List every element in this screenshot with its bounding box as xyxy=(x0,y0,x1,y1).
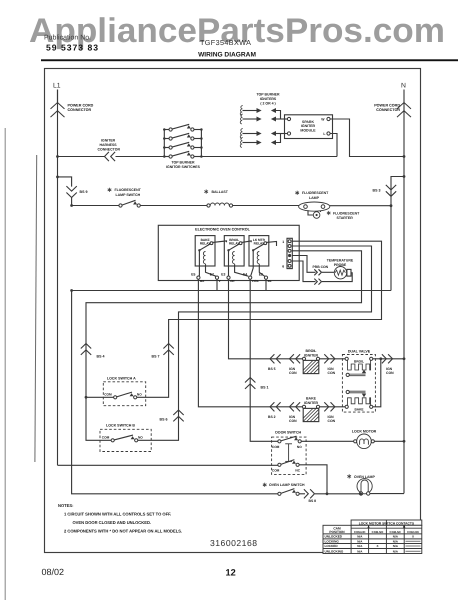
wire valve to IGN CON out xyxy=(381,358,404,360)
svg-text:N/A: N/A xyxy=(393,549,399,553)
svg-text:DOOR SWITCH: DOOR SWITCH xyxy=(275,430,301,434)
svg-text:BS 4: BS 4 xyxy=(97,355,105,359)
lock switch A box xyxy=(103,382,145,406)
wire L1 to BS9 xyxy=(58,177,72,187)
broil igniter xyxy=(302,357,305,360)
junction N broil-bake return xyxy=(403,357,406,360)
svg-text:E3: E3 xyxy=(221,273,225,277)
svg-text:NO: NO xyxy=(138,436,143,440)
broil valve element xyxy=(345,357,348,360)
probe connector lower xyxy=(319,279,322,285)
svg-text:( 2 OR 4 ): ( 2 OR 4 ) xyxy=(260,102,275,106)
wire lamp to BS3 xyxy=(330,205,391,207)
label fluorescent lamp switch xyxy=(109,188,111,192)
table dash locked B xyxy=(406,545,421,547)
bake valve actuator xyxy=(346,390,349,393)
wire switch to ballast xyxy=(140,205,207,207)
svg-text:COM: COM xyxy=(272,445,280,449)
svg-text:59 5373 83: 59 5373 83 xyxy=(46,43,99,53)
svg-text:PRB CON: PRB CON xyxy=(313,265,329,269)
svg-text:CON: CON xyxy=(289,419,297,423)
svg-text:SPARK: SPARK xyxy=(302,120,314,124)
wire broil igniter to valve xyxy=(320,358,346,360)
svg-text:BS 2: BS 2 xyxy=(268,415,276,419)
svg-text:DUAL VALVE: DUAL VALVE xyxy=(348,349,371,353)
junction L1 BS9 branch xyxy=(56,176,59,179)
svg-text:NC: NC xyxy=(295,469,300,473)
svg-text:LOCK SWITCH B: LOCK SWITCH B xyxy=(106,424,135,428)
title underline xyxy=(41,59,458,61)
wire L1 main line right xyxy=(201,156,337,158)
wire E4 to door switch xyxy=(250,279,278,441)
lock motor relay xyxy=(249,236,269,266)
wire probe connector to probe xyxy=(322,271,334,273)
svg-text:HARNESS: HARNESS xyxy=(100,143,118,147)
svg-text:6: 6 xyxy=(282,265,284,269)
connector IGN CON broil in xyxy=(290,354,294,363)
connector BS 1 xyxy=(245,378,255,383)
svg-text:COM-NC: COM-NC xyxy=(390,530,402,534)
svg-text:Publication No.: Publication No. xyxy=(44,34,91,42)
label fluorescent lamp xyxy=(296,191,298,195)
probe connector upper xyxy=(319,269,322,275)
top burner igniter switches xyxy=(163,130,165,157)
electronic oven control box xyxy=(158,225,299,280)
wire N to BS3 xyxy=(391,177,404,206)
svg-text:BS 1: BS 1 xyxy=(261,386,269,390)
table dash unlocking B xyxy=(406,550,421,552)
svg-text:CONNECTOR: CONNECTOR xyxy=(98,148,121,152)
svg-text:E7: E7 xyxy=(210,273,214,277)
broil relay xyxy=(224,236,244,266)
wire broil relay to E3 xyxy=(228,250,230,276)
wire BS3 rail down xyxy=(390,206,392,291)
svg-text:POWER CORD: POWER CORD xyxy=(68,104,94,108)
power cord connector N xyxy=(397,103,411,109)
svg-text:LAMP SWITCH: LAMP SWITCH xyxy=(116,193,141,197)
wire fluorescent feed xyxy=(72,205,119,207)
connector BS 9 xyxy=(66,193,76,198)
svg-text:N/A: N/A xyxy=(393,544,399,548)
svg-text:1 CIRCUIT SHOWN WITH ALL CO: 1 CIRCUIT SHOWN WITH ALL CONTROLS SET TO… xyxy=(64,512,171,517)
bake relay xyxy=(195,236,215,266)
svg-text:NO: NO xyxy=(297,445,302,449)
svg-text:L1: L1 xyxy=(53,83,61,90)
page edge scan artifact xyxy=(4,128,6,600)
dual valve box xyxy=(342,355,375,413)
junction door NC lamp xyxy=(326,492,329,495)
svg-text:316002168: 316002168 xyxy=(210,538,258,548)
wire L1 rail xyxy=(57,90,59,466)
svg-text:X: X xyxy=(412,535,414,539)
wire L1 to door switch lower COM xyxy=(58,464,278,466)
wire bake relay to E5 xyxy=(198,250,200,276)
control terminal strip xyxy=(287,238,292,268)
svg-text:V: V xyxy=(219,279,221,283)
door switch upper xyxy=(278,440,281,443)
svg-text:CON: CON xyxy=(289,371,297,375)
bake igniter xyxy=(302,405,305,408)
wire bake coil to E7 xyxy=(206,264,216,276)
wire strip5 to probe return xyxy=(292,261,315,282)
junction fluorescent feed xyxy=(70,204,73,207)
svg-text:N/A: N/A xyxy=(393,535,399,539)
svg-text:N: N xyxy=(401,83,406,90)
wire bake valve out xyxy=(373,359,381,407)
svg-text:CON: CON xyxy=(328,371,336,375)
junction fluorescent return xyxy=(390,204,393,207)
wire bake-broil relay link xyxy=(213,241,227,243)
svg-text:12: 12 xyxy=(226,568,236,578)
connector IGN CON bake in xyxy=(290,402,294,411)
spark igniter module terminals xyxy=(287,117,290,120)
wire lkmtr relay link xyxy=(266,242,276,247)
wire broil-lkmtr relay link xyxy=(242,241,252,243)
svg-text:NOTES:: NOTES: xyxy=(58,503,73,508)
svg-text:BS 6: BS 6 xyxy=(160,418,168,422)
wire door NO to lock motor xyxy=(301,440,353,442)
temperature probe xyxy=(334,267,346,279)
top burner igniters (4 spark gaps) xyxy=(240,106,243,116)
diagram border frame xyxy=(45,69,421,553)
wire lkmtr coil to E2 xyxy=(259,264,264,276)
svg-text:E2: E2 xyxy=(259,273,263,277)
svg-text:LOCK MOTOR: LOCK MOTOR xyxy=(352,429,377,433)
connector BS 8 xyxy=(310,489,314,498)
wire E2 drop xyxy=(265,279,267,290)
lock switch B box xyxy=(100,429,151,451)
svg-text:CON: CON xyxy=(386,371,394,375)
wire broil valve out xyxy=(373,358,381,360)
junction return line left xyxy=(70,289,73,292)
power cord connector L1 xyxy=(51,103,65,109)
svg-text:FLUORESCENT: FLUORESCENT xyxy=(302,191,329,195)
lock switch B xyxy=(111,439,114,442)
lock motor switch contacts table grid xyxy=(351,520,422,525)
svg-text:WIRING DIAGRAM: WIRING DIAGRAM xyxy=(198,52,256,59)
svg-text:UNLOCKING: UNLOCKING xyxy=(325,549,344,553)
svg-text:BROIL: BROIL xyxy=(306,349,318,353)
label oven lamp xyxy=(348,474,350,478)
connector BS 7 xyxy=(163,344,173,349)
svg-text:TOP BURNER: TOP BURNER xyxy=(256,93,279,97)
wire E7 drop xyxy=(216,279,218,290)
svg-text:COM: COM xyxy=(104,393,112,397)
svg-text:CON: CON xyxy=(328,419,336,423)
svg-text:08/02: 08/02 xyxy=(42,567,65,577)
door switch lower xyxy=(278,463,281,466)
svg-text:L: L xyxy=(323,132,325,136)
bake valve element xyxy=(345,405,348,408)
svg-text:CONNECTOR: CONNECTOR xyxy=(68,108,92,112)
igniter harness connector xyxy=(105,152,109,161)
junction valve returns xyxy=(379,357,382,360)
svg-text:BS 3: BS 3 xyxy=(373,189,381,193)
table dash locking B xyxy=(406,540,421,542)
label fluorescent starter xyxy=(328,211,330,215)
svg-text:COM-NO: COM-NO xyxy=(372,530,384,534)
svg-text:N/A: N/A xyxy=(393,539,399,543)
svg-text:ELECTRONIC OVEN CONTROL: ELECTRONIC OVEN CONTROL xyxy=(195,228,250,232)
wire return line xyxy=(72,290,391,292)
wire module W to N xyxy=(330,119,404,157)
svg-text:BS 8: BS 8 xyxy=(309,499,317,503)
page fold scan artifact xyxy=(35,155,37,462)
connector BS 5 broil xyxy=(270,354,274,363)
svg-text:NO: NO xyxy=(137,393,142,397)
wire L1 main line left xyxy=(58,156,105,158)
wire L1 main line mid xyxy=(116,156,165,158)
svg-text:IGNITER: IGNITER xyxy=(301,124,316,128)
wire E3 to broil line xyxy=(229,279,303,359)
wire main line to module L xyxy=(330,134,337,157)
svg-text:IGNITER: IGNITER xyxy=(304,353,319,357)
oven lamp switch xyxy=(278,492,281,495)
connector BS 4 xyxy=(81,344,91,349)
svg-text:LAMP: LAMP xyxy=(309,196,320,200)
wire lamp to N xyxy=(370,493,404,495)
lock switch A xyxy=(114,396,117,399)
svg-text:BAKE: BAKE xyxy=(354,408,363,412)
wire probe return loop xyxy=(322,273,352,282)
fluorescent lamp switch xyxy=(119,204,122,207)
svg-text:BROIL: BROIL xyxy=(354,360,364,364)
connector BS 2 bake xyxy=(270,402,274,411)
svg-text:FLUORESCENT: FLUORESCENT xyxy=(115,188,142,192)
label ballast xyxy=(205,190,207,194)
svg-text:N/A: N/A xyxy=(357,539,363,543)
svg-text:COM-NC: COM-NC xyxy=(354,530,366,534)
wire lock motor to N xyxy=(374,440,404,442)
fluorescent lamp xyxy=(299,202,330,211)
svg-text:1: 1 xyxy=(282,240,284,244)
wire E5 to bake line xyxy=(198,279,302,407)
svg-text:UNLOCKED: UNLOCKED xyxy=(325,535,343,539)
wire bake igniter to valve xyxy=(320,406,346,408)
svg-text:N/A: N/A xyxy=(357,549,363,553)
wire lamp switch to BS8 xyxy=(299,493,305,495)
svg-text:TOP BURNER: TOP BURNER xyxy=(171,161,194,165)
door switch link xyxy=(288,444,290,462)
label oven lamp switch xyxy=(264,483,266,487)
svg-text:TEMPERATURE: TEMPERATURE xyxy=(327,259,354,263)
connector IGN CON valve xyxy=(388,354,392,363)
wire door NC to lamp line xyxy=(299,465,327,494)
svg-text:BS 5: BS 5 xyxy=(268,367,276,371)
fluorescent starter xyxy=(308,210,313,215)
connector BS 3 xyxy=(386,191,396,196)
junction lock switch A feed xyxy=(85,396,88,399)
svg-text:POSITION: POSITION xyxy=(329,530,345,534)
svg-text:IGNITER: IGNITER xyxy=(304,401,319,405)
junction lamp left terminal xyxy=(359,493,362,496)
svg-text:IGNITER: IGNITER xyxy=(101,139,116,143)
junction N BS3 branch xyxy=(403,175,406,178)
wire strip1 to BS7 to lock switch A NO xyxy=(137,241,382,397)
svg-text:BAKE: BAKE xyxy=(306,396,317,400)
connector BS 6 xyxy=(173,410,183,415)
broil valve actuator xyxy=(346,373,349,376)
ballast xyxy=(207,204,210,207)
svg-text:BS 9: BS 9 xyxy=(80,190,88,194)
svg-text:LOCK SWITCH A: LOCK SWITCH A xyxy=(107,377,136,381)
oven lamp xyxy=(357,479,372,494)
spark igniter module box xyxy=(285,115,333,139)
svg-text:COM-NO: COM-NO xyxy=(407,530,419,534)
svg-text:E4: E4 xyxy=(243,273,247,277)
svg-text:BS 7: BS 7 xyxy=(152,355,160,359)
svg-text:LOCKING: LOCKING xyxy=(325,539,340,543)
wire BS8 to lamp xyxy=(315,493,359,495)
wire ballast to lamp xyxy=(233,205,299,207)
junction N main line xyxy=(403,155,406,158)
svg-text:PROBE: PROBE xyxy=(334,263,347,267)
svg-text:2 COMPONENTS WITH * DO NOT: 2 COMPONENTS WITH * DO NOT APPEAR ON ALL… xyxy=(64,528,182,533)
wire N rail xyxy=(403,90,405,494)
wire lkmtr relay to E4 xyxy=(251,250,253,275)
wire BS9 to fluorescent line xyxy=(71,198,73,206)
lock motor xyxy=(354,440,357,443)
svg-text:STARTER: STARTER xyxy=(337,216,354,220)
wire oven lamp switch feed xyxy=(72,291,278,494)
svg-text:VIOL: VIOL xyxy=(252,279,259,283)
svg-text:POWER CORD: POWER CORD xyxy=(374,104,400,108)
wire broil coil to E4 xyxy=(235,264,249,276)
svg-text:BL: BL xyxy=(268,279,272,283)
wire strip4 to probe connector xyxy=(292,256,315,273)
junction L1 main line xyxy=(56,155,59,158)
svg-text:IGNITOR SWITCHES: IGNITOR SWITCHES xyxy=(166,165,201,169)
svg-text:E5: E5 xyxy=(191,273,195,277)
svg-text:X: X xyxy=(376,544,378,548)
svg-text:CONNECTOR: CONNECTOR xyxy=(376,108,400,112)
svg-text:N/A: N/A xyxy=(357,535,363,539)
svg-text:OVEN LAMP SWITCH: OVEN LAMP SWITCH xyxy=(269,483,305,487)
svg-text:BALLAST: BALLAST xyxy=(212,190,229,194)
svg-text:FLUORESCENT: FLUORESCENT xyxy=(333,211,360,215)
wire strip2 to BS6 to lock switch B NO xyxy=(138,246,372,440)
svg-text:TGF354BXWA: TGF354BXWA xyxy=(200,38,251,47)
svg-text:MODULE: MODULE xyxy=(300,129,316,133)
svg-text:COM: COM xyxy=(272,469,280,473)
wire strip3 to BS4 to lock switch B COM xyxy=(86,251,362,440)
svg-text:COM: COM xyxy=(102,436,110,440)
svg-text:LOCKED: LOCKED xyxy=(325,544,339,548)
svg-text:IGNITERS: IGNITERS xyxy=(260,97,277,101)
connector IGN CON broil out xyxy=(331,354,335,363)
junction N lock motor xyxy=(403,440,406,443)
svg-text:OVEN DOOR CLOSED AND UNLOCKED.: OVEN DOOR CLOSED AND UNLOCKED. xyxy=(73,520,152,525)
connector IGN CON bake out xyxy=(331,402,335,411)
door switch box xyxy=(272,437,307,474)
wire to lock switch A COM xyxy=(86,396,114,398)
svg-text:N/A: N/A xyxy=(357,544,363,548)
